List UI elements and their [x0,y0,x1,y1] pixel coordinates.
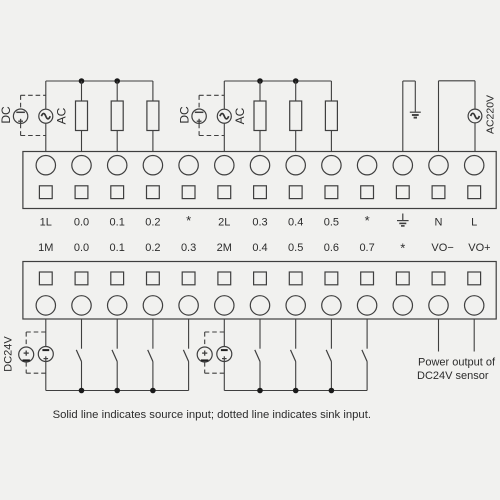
svg-text:1L: 1L [40,216,52,228]
svg-text:DC24V sensor: DC24V sensor [417,370,489,382]
terminal strip box (inputs, bottom) [23,262,496,320]
wire: switch 0.0 to common bus [81,362,83,391]
svg-text:*: * [186,213,191,228]
switch contact at input 0.0 [76,350,81,362]
output terminal screw 5 [179,156,198,175]
svg-text:0.1: 0.1 [110,216,125,228]
load resistor at output 0.0 [76,101,88,131]
wire: top bus of group 2L [224,80,331,82]
wire: dashed alternative DC branch (group 2L) [199,95,224,135]
switch contact at input 0.3 [183,350,188,362]
wire: bus to load resistor 0.5 [330,81,332,101]
wire: PE terminal riser [403,81,416,152]
input terminal square 13 [468,272,481,285]
switch contact at input 0.1 [112,350,117,362]
wire: switch 0.3 to common bus [188,362,190,391]
wire: dashed alternative supply branch (group 2M) [205,332,225,373]
DC24V supply (solid, source input, group 2M) [217,347,232,362]
input terminal screw 8 [286,296,305,315]
svg-text:DC: DC [178,106,192,124]
wire: bus to load resistor 0.1 [116,81,118,101]
DC24V supply (dashed, sink input, group 1M) [19,347,34,362]
wire: phase 1L from AC source to terminal 1L [45,81,47,152]
DC24V supply (dashed, sink input, group 2M) [197,347,212,362]
input terminal screw 11 [393,296,412,315]
wire: bus to load resistor 0.2 [152,81,154,101]
DC source (dashed alternative, group 2L) [192,109,206,124]
input terminal screw 5 [179,296,198,315]
input terminal screw 13 [465,296,484,315]
switch contact at input 0.6 [326,350,331,362]
load resistor at output 0.3 [254,101,266,131]
switch contact at input 0.7 [362,350,367,362]
svg-text:1M: 1M [38,242,53,254]
AC source of group 2L [217,109,231,123]
wire: input terminal 0.2 to switch [152,319,154,349]
wire: input terminal 0.4 to switch [259,319,261,349]
wire: switch 0.1 to common bus [116,362,118,391]
junction on input bus at 0.5 [293,388,299,394]
input terminal square 11 [396,272,409,285]
junction on 2L bus at load 0.3 [257,78,263,84]
input terminal screw 4 [143,296,162,315]
input terminal square 7 [254,272,267,285]
junction on input bus at 0.2 [150,388,156,394]
svg-text:AC220V: AC220V [484,95,496,134]
svg-text:0.4: 0.4 [252,242,267,254]
output terminal square 7 [254,186,267,199]
input terminal screw 9 [322,296,341,315]
wire: input terminal 0.1 to switch [116,319,118,349]
input terminal square 1 [39,272,52,285]
wire: terminal 2M to sensor supply [223,319,225,391]
wire: top bus of group 1L [46,80,153,82]
DC source (dashed alternative, group 1L) [13,109,27,124]
output terminal square 4 [147,186,160,199]
input terminal square 2 [75,272,88,285]
output terminal screw 13 [465,156,484,175]
load resistor at output 0.5 [325,101,337,131]
svg-text:0.0: 0.0 [74,216,89,228]
output terminal screw 9 [322,156,341,175]
wire: input common bus of group 1M [46,390,189,392]
output terminal square 1 [39,186,52,199]
wire: input terminal 0.0 to switch [81,319,83,349]
input terminal square 10 [361,272,374,285]
output terminal square 5 [182,186,195,199]
svg-text:DC24V: DC24V [2,336,14,372]
input terminal screw 12 [429,296,448,315]
output terminal screw 1 [36,156,55,175]
label: Power output of DC24V sensor [417,357,496,382]
svg-text:0.4: 0.4 [288,216,303,228]
wire: switch 0.5 to common bus [295,362,297,391]
input terminal screw 7 [250,296,269,315]
input terminal square 6 [218,272,231,285]
input terminal screw 6 [215,296,234,315]
wire: AC220V source to terminal L [474,123,476,152]
svg-text:VO−: VO− [431,242,453,254]
wire: N terminal riser and bridge to AC220V source [439,81,476,152]
svg-text:Solid line indicates source in: Solid line indicates source input; dotte… [53,409,371,421]
svg-text:0.3: 0.3 [252,216,267,228]
input terminal square 4 [147,272,160,285]
switch contact at input 0.5 [291,350,296,362]
wire: load resistor 0.2 to terminal 0.2 [152,131,154,152]
output terminal square 8 [289,186,302,199]
junction on input bus at 0.4 [257,388,263,394]
svg-text:L: L [471,216,477,228]
input terminal square 9 [325,272,338,285]
output terminal square 13 [468,186,481,199]
wire: sensor supply output VO- stub [438,319,440,352]
input terminal screw 2 [72,296,91,315]
wire: bus to load resistor 0.0 [81,81,83,101]
input terminal screw 1 [36,296,55,315]
wire: phase 2L from AC source to terminal 2L [223,81,225,152]
input terminal square 3 [111,272,124,285]
output terminal screw 12 [429,156,448,175]
output terminal screw 11 [393,156,412,175]
AC source of group 1L [39,109,53,123]
svg-text:0.1: 0.1 [110,242,125,254]
DC24V supply (solid, source input, group 1M) [38,347,53,362]
wire: dashed alternative supply branch (group 1M) [26,332,46,373]
svg-text:0.2: 0.2 [145,216,160,228]
wire: switch 0.6 to common bus [330,362,332,391]
junction on 1L bus at load 0.1 [114,78,120,84]
svg-text:DC: DC [0,106,13,124]
output terminal square 2 [75,186,88,199]
svg-text:0.2: 0.2 [145,242,160,254]
wire: input terminal 0.7 to switch [366,319,368,349]
svg-text:VO+: VO+ [468,242,490,254]
wire: bus to load resistor 0.3 [259,81,261,101]
svg-text:2M: 2M [217,242,232,254]
load resistor at output 0.4 [290,101,302,131]
output terminal screw 10 [357,156,376,175]
wire: switch 0.2 to common bus [152,362,154,391]
output terminal square 12 [432,186,445,199]
wire: load resistor 0.3 to terminal 0.3 [259,131,261,152]
input terminal screw 3 [108,296,127,315]
output terminal screw 4 [143,156,162,175]
wire: dashed alternative DC branch (group 1L) [21,95,46,135]
switch contact at input 0.4 [255,350,260,362]
junction on input bus at 0.1 [114,388,120,394]
junction on input bus at 0.6 [329,388,335,394]
output terminal square 10 [361,186,374,199]
wire: load resistor 0.1 to terminal 0.1 [116,131,118,152]
load resistor at output 0.1 [111,101,123,131]
output terminal screw 6 [215,156,234,175]
svg-text:Power output of: Power output of [418,357,496,369]
svg-text:AC: AC [55,107,69,124]
output terminal square 11 [396,186,409,199]
junction on 1L bus at load 0.0 [79,78,85,84]
wire: load resistor 0.4 to terminal 0.4 [295,131,297,152]
switch contact at input 0.2 [148,350,153,362]
label: PE terminal ground glyph [397,214,409,226]
wire: terminal 1M to sensor supply [45,319,47,391]
junction on 2L bus at load 0.4 [293,78,299,84]
svg-text:0.6: 0.6 [324,242,339,254]
wire: input terminal 0.5 to switch [295,319,297,349]
junction on input bus at 0.0 [79,388,85,394]
svg-text:N: N [435,216,443,228]
wire: bus to load resistor 0.4 [295,81,297,101]
input terminal square 12 [432,272,445,285]
wire: input terminal 0.6 to switch [330,319,332,349]
output terminal square 6 [218,186,231,199]
input terminal screw 10 [357,296,376,315]
svg-text:AC: AC [233,107,247,124]
svg-text:0.5: 0.5 [324,216,339,228]
output terminal screw 8 [286,156,305,175]
input terminal square 5 [182,272,195,285]
wire: switch 0.4 to common bus [259,362,261,391]
svg-text:0.5: 0.5 [288,242,303,254]
svg-text:0.3: 0.3 [181,242,196,254]
ground symbol (earth above PE terminal) [410,112,421,117]
wire: load resistor 0.0 to terminal 0.0 [81,131,83,152]
output terminal square 9 [325,186,338,199]
load resistor at output 0.2 [147,101,159,131]
terminal strip box (outputs, top) [23,152,496,209]
AC220V source [468,109,482,123]
output terminal screw 2 [72,156,91,175]
svg-text:0.0: 0.0 [74,242,89,254]
svg-text:*: * [400,240,405,255]
svg-text:0.7: 0.7 [359,242,374,254]
svg-text:2L: 2L [218,216,230,228]
output terminal screw 7 [250,156,269,175]
wire: load resistor 0.5 to terminal 0.5 [330,131,332,152]
wire: input common bus of group 2M [224,390,367,392]
wire: switch 0.7 to common bus [366,362,368,391]
output terminal screw 3 [108,156,127,175]
wire: sensor supply output VO+ stub [473,319,475,352]
output terminal square 3 [111,186,124,199]
wire: input terminal 0.3 to switch [188,319,190,349]
input terminal square 8 [289,272,302,285]
svg-text:*: * [365,213,370,228]
